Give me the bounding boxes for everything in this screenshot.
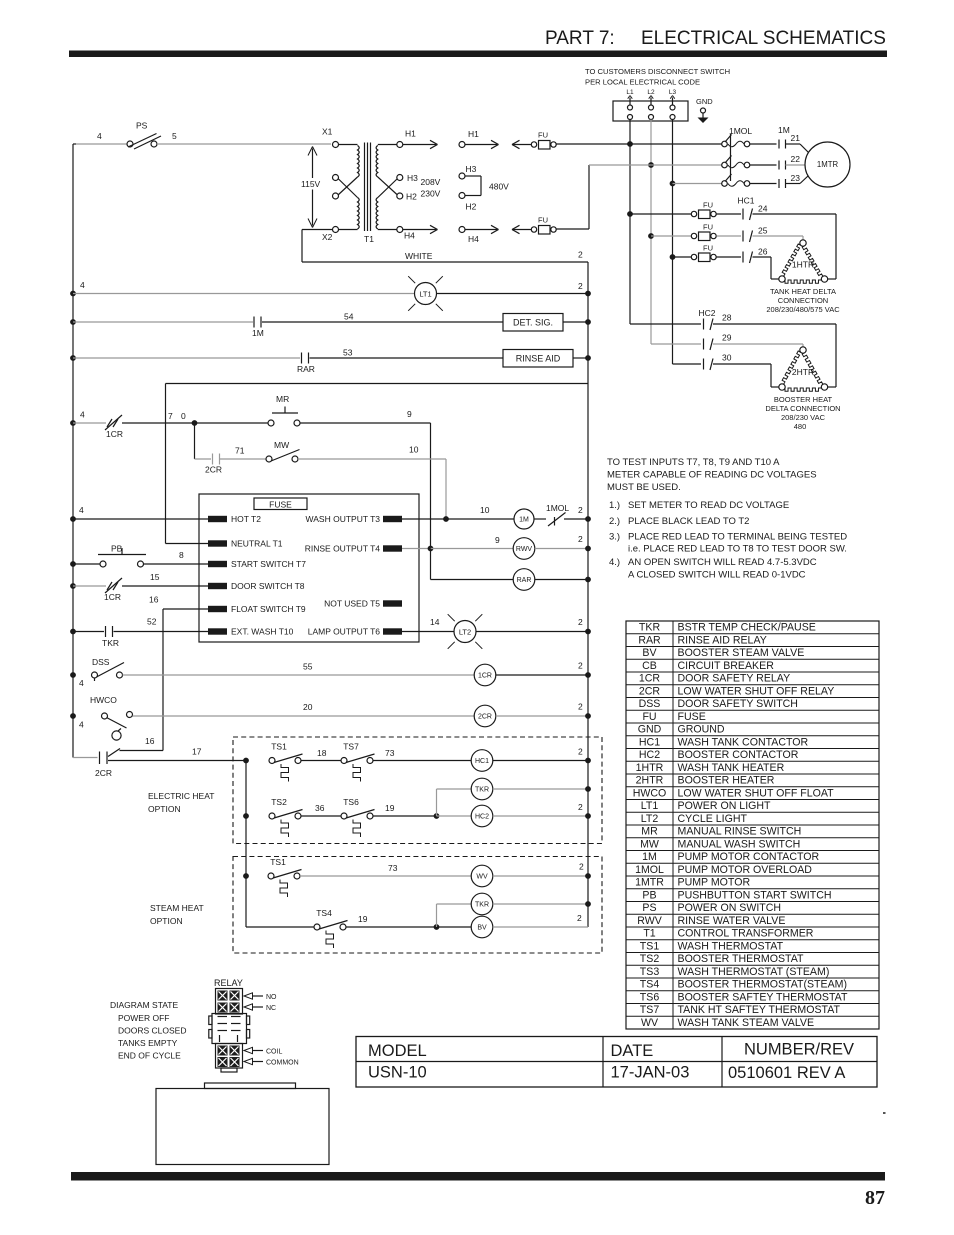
node MR MW branch [192,420,198,426]
wire T3 to node [402,518,446,520]
relay coil RAR [431,549,589,591]
box RINSE AID [503,350,588,368]
note diagram state [110,1000,187,1061]
transformer T1 secondary crossover [378,177,398,198]
relay pin COMMON [244,1058,299,1066]
svg-text:TO CUSTOMERS DISCONNECT SWITCH: TO CUSTOMERS DISCONNECT SWITCH [585,67,730,76]
svg-text:AN OPEN SWITCH WILL READ 4.7-5: AN OPEN SWITCH WILL READ 4.7-5.3VDC [628,557,817,568]
svg-text:TS4: TS4 [316,908,332,918]
label T1 [364,234,374,244]
svg-text:METER CAPABLE OF READING DC VO: METER CAPABLE OF READING DC VOLTAGES [607,470,817,481]
lamp LT2 [402,614,588,649]
svg-text:RWV: RWV [516,546,533,553]
label booster heat delta connection [765,395,840,431]
svg-text:2: 2 [578,505,583,515]
relay coil TKR steam [437,893,589,927]
svg-text:23: 23 [791,173,801,183]
svg-text:208/230/480/575 VAC: 208/230/480/575 VAC [766,305,840,314]
svg-text:FU: FU [703,244,713,253]
svg-text:TS4: TS4 [640,979,660,991]
svg-text:BOOSTER HEATER: BOOSTER HEATER [678,775,775,787]
svg-text:L3: L3 [669,89,677,96]
node phase L3 row3 [670,181,676,187]
node phase L1 row1 [627,141,633,147]
transformer T1 primary mid taps [333,175,339,200]
terminal NOT USED T5 [324,599,402,609]
svg-text:POWER OFF: POWER OFF [118,1013,169,1023]
svg-text:NOT USED T5: NOT USED T5 [324,599,380,609]
svg-text:HC2: HC2 [475,814,489,821]
relay pin NO [244,993,277,1001]
svg-text:H3: H3 [466,164,477,174]
transformer T1 primary terminal X1 [322,127,339,148]
svg-text:1M: 1M [252,328,264,338]
svg-text:RAR: RAR [638,634,661,646]
node steam feed TS1 [243,873,249,879]
wire H1 arrow out [403,140,438,148]
svg-text:53: 53 [343,348,353,358]
svg-text:WASH TANK CONTACTOR: WASH TANK CONTACTOR [678,736,809,748]
svg-text:RINSE AID RELAY: RINSE AID RELAY [678,634,767,646]
svg-text:CYCLE LIGHT: CYCLE LIGHT [678,813,748,825]
node phase L2 fuse row 25 [648,233,654,239]
relay coil HC1 [471,747,588,772]
svg-text:MW: MW [274,440,289,450]
svg-text:DSS: DSS [639,698,661,710]
terminal DOOR SWITCH T8 [208,581,305,591]
wire 16 from T9 [149,595,208,751]
svg-text:POWER ON LIGHT: POWER ON LIGHT [678,800,772,812]
svg-text:MANUAL RINSE SWITCH: MANUAL RINSE SWITCH [678,826,802,838]
svg-text:HWCO: HWCO [633,787,667,799]
wire 10 down [409,445,446,520]
svg-text:HC1: HC1 [639,736,660,748]
svg-text:FU: FU [703,201,713,210]
relay coil BV [437,913,589,938]
node phase L3 fuse row 26 [670,254,676,260]
svg-text:1.): 1.) [609,500,620,511]
node right rail 1M [585,516,591,522]
contact 1CR safety rung [73,410,194,440]
terminal block disconnect switch box [613,101,688,121]
contact 2CR low water rung [73,749,120,779]
svg-text:POWER ON SWITCH: POWER ON SWITCH [678,902,782,914]
svg-text:SET METER TO READ DC VOLTAGE: SET METER TO READ DC VOLTAGE [628,500,789,511]
svg-text:2CR: 2CR [639,685,661,697]
svg-text:NUMBER/REV: NUMBER/REV [744,1041,854,1059]
svg-text:1HTR: 1HTR [636,762,664,774]
svg-text:TANKS EMPTY: TANKS EMPTY [118,1038,178,1048]
svg-text:17: 17 [192,747,202,757]
svg-text:3.): 3.) [609,532,620,543]
connector terminal H1 [459,129,499,149]
svg-text:A CLOSED SWITCH WILL READ 0-1V: A CLOSED SWITCH WILL READ 0-1VDC [628,570,806,581]
svg-text:28: 28 [722,313,732,323]
relay pin COIL [244,1047,282,1055]
box fuse panel [199,494,419,642]
node left rail 1CR door rung [70,583,76,589]
motor 1MTR [805,142,850,187]
svg-text:2: 2 [578,661,583,671]
transformer T1 secondary terminal H2 [397,192,417,202]
node right rail 2CR coil [585,713,591,719]
svg-text:MW: MW [640,838,659,850]
svg-text:TS1: TS1 [271,742,287,752]
svg-text:BOOSTER THERMOSTAT: BOOSTER THERMOSTAT [678,953,804,965]
svg-text:MANUAL WASH SWITCH: MANUAL WASH SWITCH [678,838,801,850]
box blank stamp area [156,1083,329,1165]
svg-text:17-JAN-03: 17-JAN-03 [611,1064,690,1082]
svg-text:FU: FU [538,216,548,225]
node left rail 1CR rung [70,420,76,426]
wire H3-H2 strap 480V [481,176,509,196]
svg-text:RINSE OUTPUT T4: RINSE OUTPUT T4 [305,544,381,554]
wire right return rail [587,262,589,927]
thermostat TS4 [314,908,437,948]
wire feed to TS4 [246,876,314,927]
svg-text:8: 8 [179,550,184,560]
svg-text:2CR: 2CR [95,768,112,778]
relay coil WV [471,862,588,887]
svg-text:DSS: DSS [92,657,110,667]
svg-text:2: 2 [578,250,583,260]
svg-text:TS6: TS6 [640,991,660,1003]
svg-text:2HTR: 2HTR [636,775,664,787]
contact 2CR manual wash rung [195,423,267,475]
node wire 9 T4 [428,546,434,552]
svg-text:H1: H1 [468,129,479,139]
terminal RINSE OUTPUT T4 [305,544,402,554]
svg-text:CIRCUIT BREAKER: CIRCUIT BREAKER [678,660,775,672]
svg-text:GND: GND [696,97,713,106]
relay coil TKR electric [437,778,589,816]
lamp LT1 rung wire [73,280,588,294]
svg-text:RAR: RAR [517,577,532,584]
transformer T1 secondary terminal H4 [397,227,415,241]
svg-text:TO TEST INPUTS T7, T8, T9 AND: TO TEST INPUTS T7, T8, T9 AND T10 A [607,457,780,468]
relay coil 1CR [474,661,588,686]
header title PART 7: ELECTRICAL SCHEMATICS [545,28,886,49]
svg-text:55: 55 [303,662,313,672]
label RELAY [214,978,243,988]
svg-text:LT2: LT2 [641,813,659,825]
svg-text:1MOL: 1MOL [546,503,569,513]
wire phase L1 column [629,120,631,325]
lamp LT1 [408,276,443,311]
svg-text:GND: GND [638,724,662,736]
svg-text:LOW WATER SHUT OFF FLOAT: LOW WATER SHUT OFF FLOAT [678,787,835,799]
svg-text:73: 73 [385,748,395,758]
wire phase L3 column [672,120,674,365]
svg-text:1MTR: 1MTR [635,877,664,889]
svg-text:RINSE WATER VALVE: RINSE WATER VALVE [678,915,786,927]
svg-text:TKR: TKR [639,622,661,634]
svg-text:WV: WV [476,874,488,881]
node right rail RWV [585,546,591,552]
svg-text:2: 2 [578,702,583,712]
svg-text:DOORS CLOSED: DOORS CLOSED [118,1026,187,1036]
svg-text:24: 24 [758,204,768,214]
node left rail TKR rung [70,629,76,635]
svg-text:36: 36 [315,803,325,813]
svg-text:2: 2 [578,281,583,291]
label tank heat delta connection [766,287,840,314]
svg-text:MUST BE USED.: MUST BE USED. [607,482,681,493]
svg-text:230V: 230V [421,189,441,199]
node heat feed TS1 [243,758,249,764]
svg-text:BOOSTER SAFTEY THERMOSTAT: BOOSTER SAFTEY THERMOSTAT [678,991,848,1003]
svg-text:LAMP OUTPUT T6: LAMP OUTPUT T6 [308,627,381,637]
svg-text:1HTR: 1HTR [792,260,814,270]
svg-text:ELECTRICAL SCHEMATICS: ELECTRICAL SCHEMATICS [641,28,886,49]
terminal NEUTRAL T1 [208,539,283,549]
svg-text:HWCO: HWCO [90,695,117,705]
svg-text:TS6: TS6 [343,797,359,807]
svg-text:ELECTRIC HEAT: ELECTRIC HEAT [148,791,214,801]
wire T4 to node [402,548,431,550]
svg-text:2: 2 [578,534,583,544]
svg-text:NEUTRAL T1: NEUTRAL T1 [231,539,283,549]
svg-text:TS1: TS1 [640,940,660,952]
svg-text:DATE: DATE [611,1042,654,1060]
svg-text:BV: BV [477,925,487,932]
label electric heat option [148,791,214,814]
node right rail TKR steam [585,901,591,907]
overload contact 1MOL [546,503,588,526]
node right rail LT1 [585,291,591,297]
fuse FU row 24 [630,201,741,219]
transformer T1 secondary winding B [376,198,397,230]
fuse FU row 26 [673,244,742,262]
svg-text:WASH THERMOSTAT: WASH THERMOSTAT [678,940,784,952]
svg-text:PLACE RED LEAD TO TERMINAL BEI: PLACE RED LEAD TO TERMINAL BEING TESTED [628,532,847,543]
transformer T1 primary winding B [339,198,360,230]
node right rail WV [585,873,591,879]
wire TS1 to TS2 branch [245,761,247,817]
svg-text:2: 2 [578,747,583,757]
svg-text:START SWITCH T7: START SWITCH T7 [231,559,306,569]
relay coil RWV [431,534,589,559]
table model date number [356,1037,877,1088]
svg-text:19: 19 [385,803,395,813]
svg-text:COMMON: COMMON [266,1060,299,1067]
svg-text:4: 4 [79,678,84,688]
svg-text:16: 16 [145,736,155,746]
switch MR manual rinse [195,394,431,426]
transformer T1 primary crossover [338,177,358,198]
svg-text:USN-10: USN-10 [368,1064,427,1082]
svg-text:480V: 480V [489,182,509,192]
svg-text:PUMP MOTOR CONTACTOR: PUMP MOTOR CONTACTOR [678,851,820,863]
node left rail rinse aid rung [70,355,76,361]
svg-text:PER LOCAL ELECTRICAL CODE: PER LOCAL ELECTRICAL CODE [585,78,700,87]
heater delta 2HTR [779,347,828,391]
relay pin NC [244,1004,276,1012]
box steam heat option [233,857,602,954]
svg-text:OPTION: OPTION [150,916,183,926]
svg-text:10: 10 [480,505,490,515]
relay body middle [209,1014,250,1044]
svg-text:HC2: HC2 [698,308,715,318]
svg-text:H3: H3 [407,173,418,183]
svg-text:L2: L2 [647,89,655,96]
svg-text:TANK HEAT DELTA: TANK HEAT DELTA [770,287,836,296]
svg-text:MR: MR [276,394,289,404]
svg-text:1CR: 1CR [639,673,661,685]
svg-text:1CR: 1CR [478,673,492,680]
contact 1M det sig rung [73,312,503,339]
switch HWCO low water float [79,695,474,740]
svg-text:X2: X2 [322,232,333,242]
svg-text:TKR: TKR [475,787,489,794]
svg-text:X1: X1 [322,127,333,137]
svg-text:2CR: 2CR [478,714,492,721]
svg-text:TKR: TKR [475,902,489,909]
svg-text:DET. SIG.: DET. SIG. [513,318,553,328]
terminal HOT T2 [73,505,261,524]
node left rail det sig rung [70,319,76,325]
node right rail 1CR coil [585,672,591,678]
svg-text:CONNECTION: CONNECTION [778,296,828,305]
svg-text:1M: 1M [778,125,790,135]
svg-text:WASH TANK STEAM VALVE: WASH TANK STEAM VALVE [678,1017,815,1029]
svg-text:15: 15 [150,572,160,582]
node right rail rinse aid [585,355,591,361]
connector terminal H3 [459,164,481,179]
svg-text:1MOL: 1MOL [635,864,664,876]
svg-text:5: 5 [172,131,177,141]
transformer T1 primary terminal X2 [322,227,339,243]
svg-text:LT2: LT2 [459,628,471,637]
svg-text:2: 2 [579,862,584,872]
node left rail DSS rung [70,672,76,678]
svg-text:4: 4 [80,410,85,420]
svg-text:DOOR SAFETY RELAY: DOOR SAFETY RELAY [678,673,791,685]
svg-text:4: 4 [80,280,85,290]
svg-text:71: 71 [235,446,245,456]
node right rail HC1 [585,758,591,764]
svg-text:LT1: LT1 [419,290,431,299]
svg-text:STEAM HEAT: STEAM HEAT [150,903,204,913]
svg-text:DELTA CONNECTION: DELTA CONNECTION [765,404,840,413]
svg-text:0: 0 [181,411,186,421]
contact HC2 pole 30 [673,353,732,371]
svg-text:FUSE: FUSE [678,711,706,723]
contact HC1 pole 25 [743,226,768,243]
svg-text:COIL: COIL [266,1049,282,1056]
contact TKR rung [73,617,208,649]
svg-text:PS: PS [136,121,148,131]
wire H4 arrow out [403,225,438,233]
thermostat TS6 [341,797,437,837]
relay coil 1M [446,505,546,529]
wire 30 to delta 2HTR [713,364,779,387]
svg-text:TKR: TKR [102,638,119,648]
svg-text:PS: PS [642,902,656,914]
switch PS power on [76,121,331,150]
thermostat TS1 steam [268,857,471,897]
node TKR branch electric [434,813,440,819]
wire 16 horizontal [120,736,164,751]
wire phase L2 column [650,120,652,345]
wire 28 to delta 2HTR [713,324,836,387]
svg-text:1M: 1M [519,517,529,524]
svg-text:52: 52 [147,617,157,627]
svg-text:PLACE BLACK LEAD TO T2: PLACE BLACK LEAD TO T2 [628,516,749,527]
thermostat TS7 [341,742,471,782]
svg-text:FU: FU [703,223,713,232]
node right rail HC2 [585,813,591,819]
node phase L1 fuse row 24 [627,211,633,217]
node left rail PB rung [70,561,76,567]
svg-text:GROUND: GROUND [678,724,725,736]
svg-text:MODEL: MODEL [368,1042,427,1060]
svg-text:PUMP MOTOR: PUMP MOTOR [678,877,751,889]
svg-text:L1: L1 [626,89,634,96]
svg-text:WV: WV [641,1017,659,1029]
wire feed to steam box [245,816,247,876]
switch MW manual wash [266,440,446,462]
svg-text:FUSE: FUSE [269,500,292,510]
svg-text:2: 2 [578,617,583,627]
note to customers disconnect switch [585,67,730,87]
svg-text:54: 54 [344,312,354,322]
svg-text:RAR: RAR [297,364,315,374]
svg-text:END OF CYCLE: END OF CYCLE [118,1051,181,1061]
footer rule bar [71,1172,885,1181]
svg-text:10: 10 [409,445,419,455]
terminal FLOAT SWITCH T9 [208,604,306,614]
svg-text:TS2: TS2 [271,797,287,807]
node wire 10 T3 [443,516,449,522]
connector terminal H4 [459,225,499,244]
wire 25 to delta 1HTR [753,236,804,240]
fuse FU row 25 [651,223,741,241]
svg-text:16: 16 [149,595,159,605]
node left rail LT1 rung [70,291,76,297]
svg-text:LOW WATER SHUT OFF RELAY: LOW WATER SHUT OFF RELAY [678,685,835,697]
svg-text:29: 29 [722,333,732,343]
svg-text:H2: H2 [466,202,477,212]
switch DSS door safety [79,657,474,688]
svg-text:26: 26 [758,247,768,257]
svg-text:H4: H4 [404,231,415,241]
terminal EXT. WASH T10 [208,627,294,637]
contact 1CR door rung [73,572,208,602]
svg-text:PUMP MOTOR OVERLOAD: PUMP MOTOR OVERLOAD [678,864,813,876]
header rule bar [69,51,887,58]
node right rail RAR [585,577,591,583]
contact RAR rinse aid rung [73,348,503,375]
svg-text:HC1: HC1 [475,758,489,765]
label wire 7 0 [168,411,186,421]
node right rail TKR electric [585,786,591,792]
svg-text:2: 2 [578,802,583,812]
svg-text:208V: 208V [421,177,441,187]
node right rail det sig [585,319,591,325]
svg-text:FLOAT SWITCH T9: FLOAT SWITCH T9 [231,604,306,614]
svg-text:1MTR: 1MTR [817,160,839,169]
page number 87 [865,1187,885,1209]
svg-text:1M: 1M [642,851,657,863]
contact HC1 pole 26 [743,247,768,264]
svg-text:PUSHBUTTON START SWITCH: PUSHBUTTON START SWITCH [678,889,832,901]
wire 9 down [407,409,431,548]
node heat feed TS2 [243,813,249,819]
svg-text:18: 18 [317,748,327,758]
svg-text:25: 25 [758,226,768,236]
relay coil HC2 [437,802,589,827]
